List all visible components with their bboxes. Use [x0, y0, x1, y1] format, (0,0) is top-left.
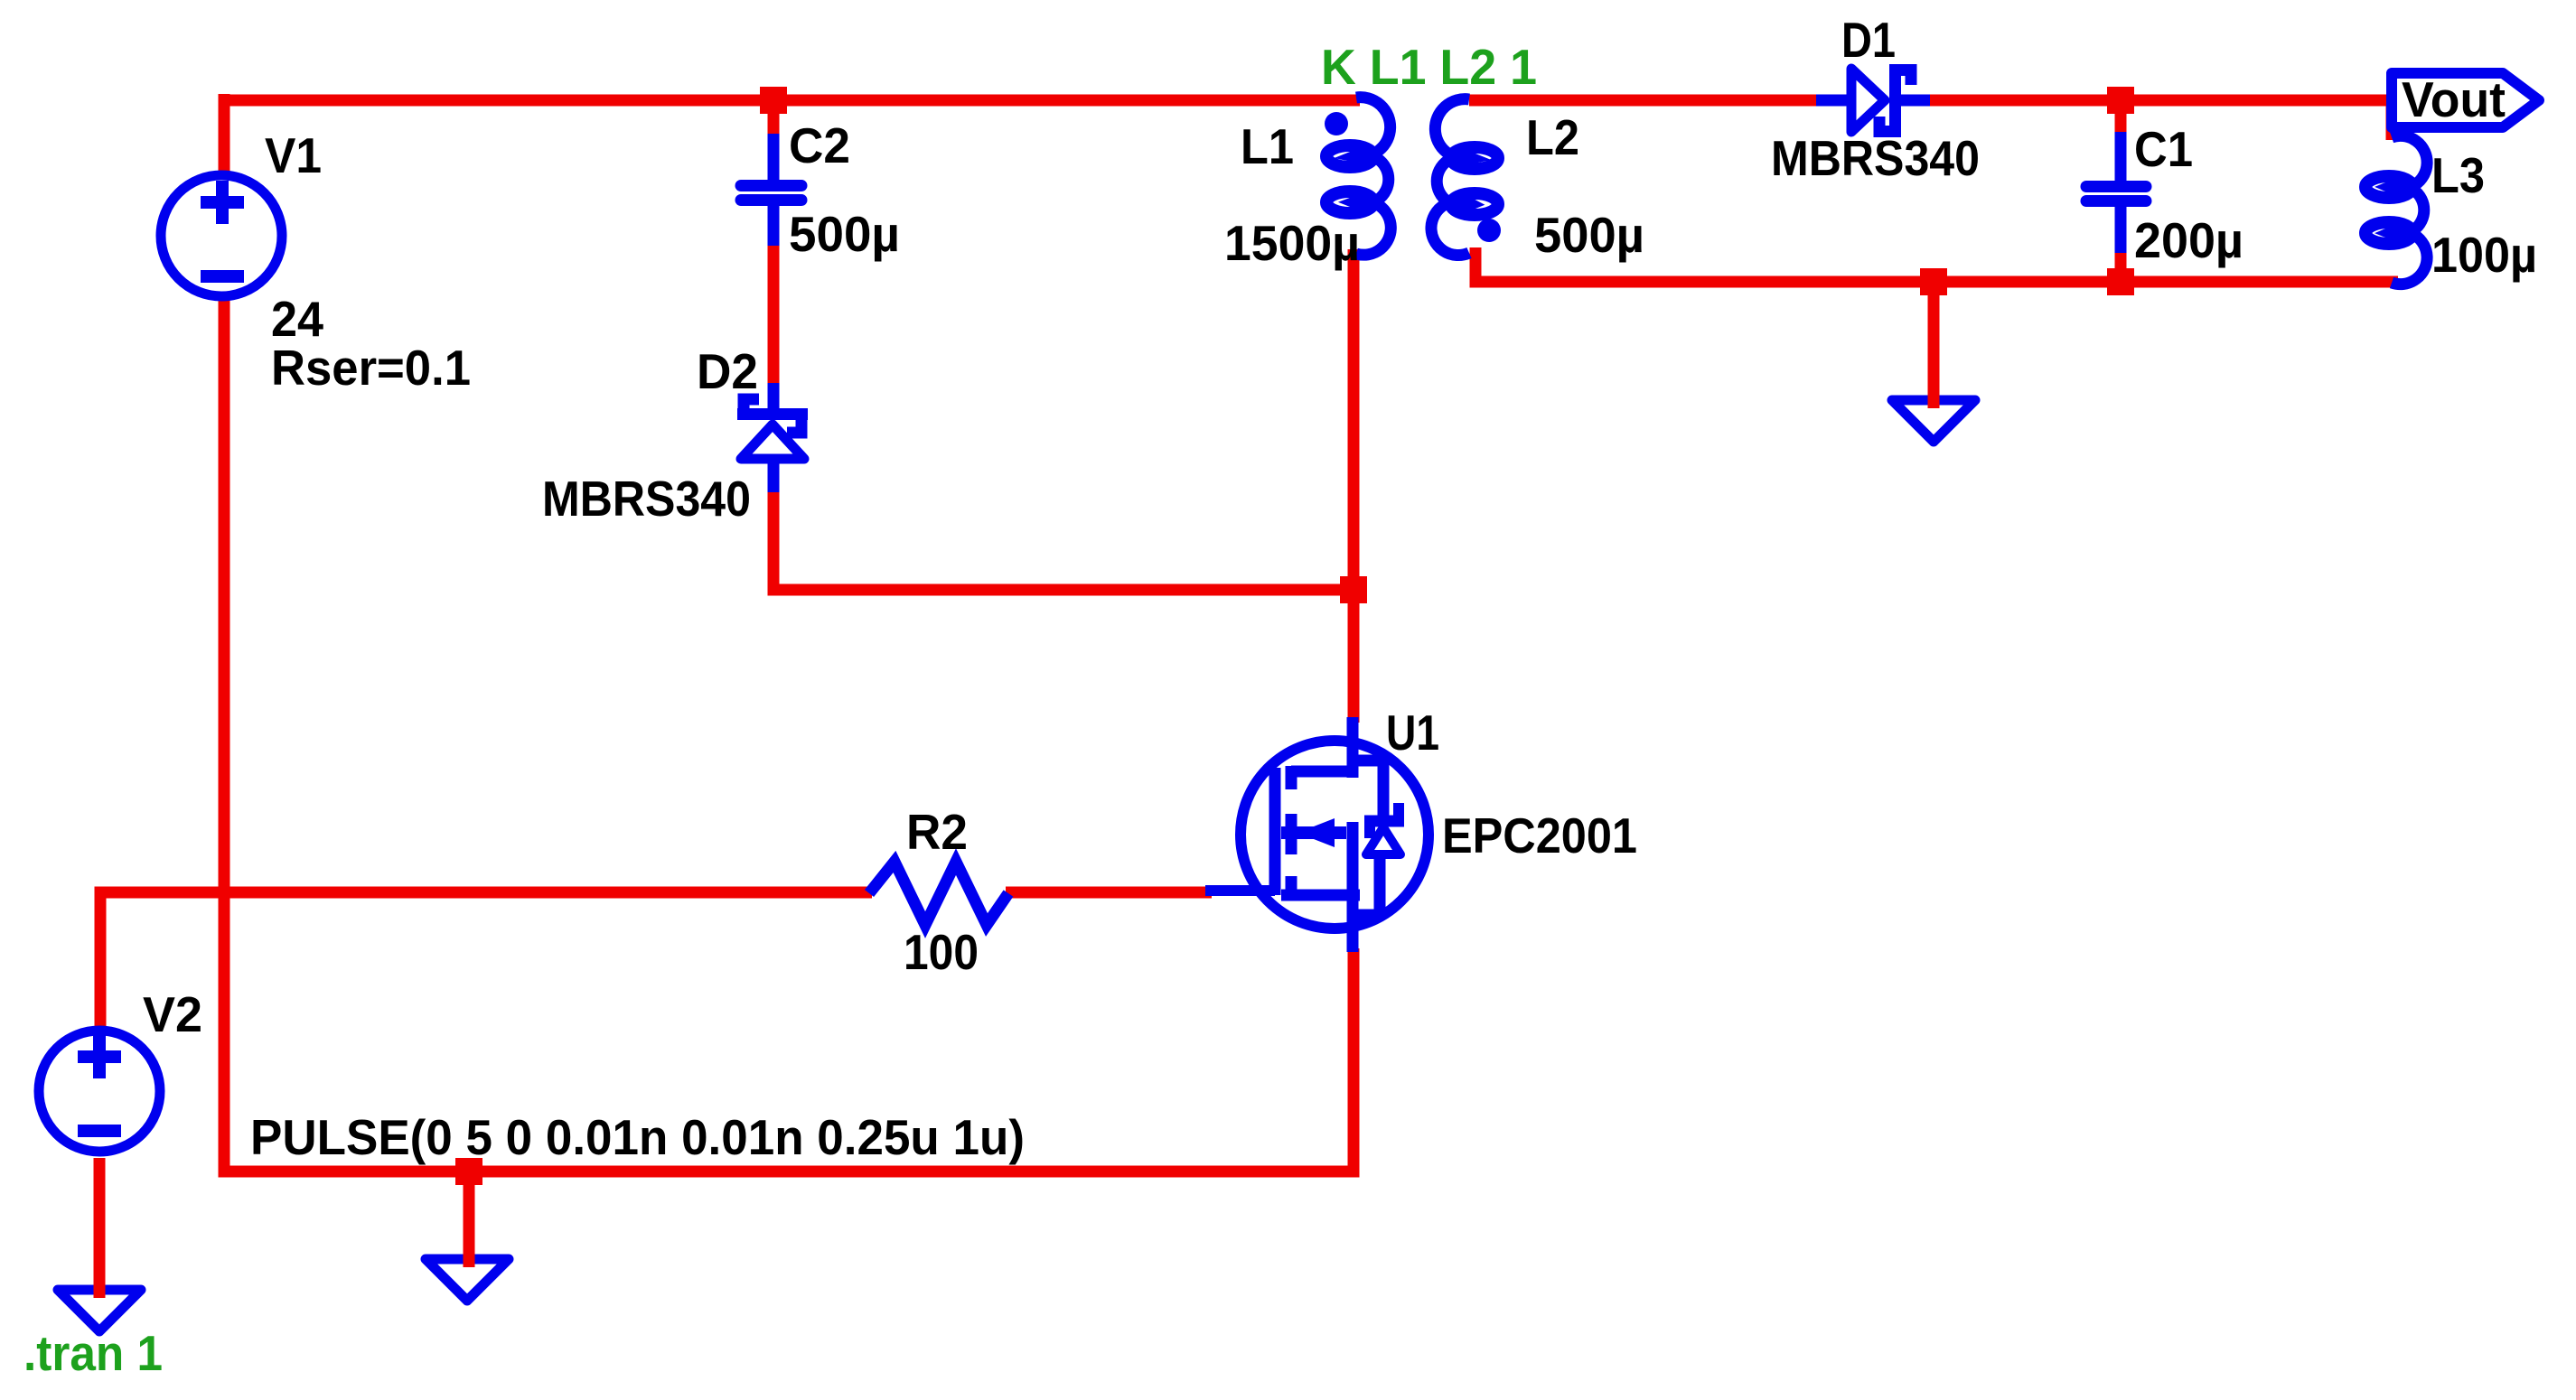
mosfet U1 EPC2001 — [1205, 717, 1429, 952]
svg-text:500µ: 500µ — [1534, 207, 1644, 263]
wire R2 to gate — [1006, 887, 1212, 899]
capacitor C2 — [741, 134, 801, 246]
svg-text:EPC2001: EPC2001 — [1442, 807, 1637, 863]
svg-text:C2: C2 — [789, 117, 850, 173]
voltage source V1 — [161, 175, 282, 296]
Vout port flag — [2392, 71, 2539, 127]
svg-text:200µ: 200µ — [2134, 212, 2243, 268]
node ground2 junction — [455, 1158, 482, 1185]
svg-text:100: 100 — [904, 924, 979, 980]
wire V2 top stub — [95, 887, 107, 1031]
wire bottom rail — [219, 1166, 1360, 1178]
ground output side — [1892, 400, 1975, 442]
svg-text:.tran 1: .tran 1 — [23, 1325, 163, 1381]
svg-text:U1: U1 — [1386, 705, 1439, 761]
wire drain vertical upper — [1348, 249, 1360, 723]
resistor R2 — [869, 862, 1008, 925]
svg-text:V1: V1 — [265, 127, 322, 183]
ground bottom center — [426, 1259, 509, 1301]
inductor L3 output — [2365, 135, 2427, 284]
svg-text:D2: D2 — [697, 343, 758, 399]
svg-text:PULSE(0 5 0 0.01n 0.01n 0.25u: PULSE(0 5 0 0.01n 0.01n 0.25u 1u) — [250, 1109, 1025, 1165]
wire source vertical lower — [1348, 948, 1360, 1178]
ground under V2 — [58, 1290, 141, 1331]
node C1 bottom junction — [2107, 268, 2134, 295]
svg-text:L2: L2 — [1526, 109, 1579, 165]
wire ground1 stem — [1928, 282, 1940, 402]
svg-text:MBRS340: MBRS340 — [542, 471, 751, 527]
svg-text:MBRS340: MBRS340 — [1771, 130, 1980, 186]
wire D1 to Vout — [1925, 95, 2392, 107]
svg-text:D1: D1 — [1841, 12, 1896, 68]
node C2 top junction — [760, 87, 787, 114]
node C1 top junction — [2107, 87, 2134, 114]
svg-text:K L1 L2 1: K L1 L2 1 — [1321, 39, 1537, 95]
diode D1 schottky — [1816, 64, 1930, 137]
wire C2 branch top — [768, 94, 780, 137]
svg-text:500µ: 500µ — [789, 206, 900, 262]
svg-text:Vout: Vout — [2402, 71, 2506, 127]
svg-text:V2: V2 — [143, 986, 202, 1042]
inductor L1 primary winding — [1326, 98, 1391, 256]
wire L2 bottom stem — [1470, 247, 1482, 276]
wire D2 bottom — [768, 486, 780, 596]
L1 phase dot — [1325, 112, 1348, 135]
svg-text:24: 24 — [271, 291, 323, 347]
wire ground2 stem — [464, 1171, 475, 1263]
svg-text:100µ: 100µ — [2431, 227, 2537, 283]
svg-text:Rser=0.1: Rser=0.1 — [271, 340, 471, 396]
wire V2 bottom stub — [94, 1158, 106, 1293]
capacitor C1 — [2086, 132, 2146, 253]
inductor L2 secondary winding — [1431, 99, 1498, 256]
svg-text:C1: C1 — [2134, 121, 2193, 177]
L2 phase dot — [1477, 219, 1501, 242]
wires layer — [97, 94, 2398, 1293]
wire D2 horizontal — [768, 584, 1360, 596]
svg-text:L1: L1 — [1241, 118, 1294, 174]
svg-text:1500µ: 1500µ — [1224, 215, 1360, 271]
diode D2 schottky — [737, 383, 808, 492]
wire bottom right rail — [1470, 276, 2399, 288]
wire C1 bottom stub — [2115, 249, 2127, 287]
wire V1 vertical — [219, 94, 230, 1171]
node ground1 junction — [1920, 268, 1947, 295]
node drain junction — [1340, 576, 1367, 603]
voltage source V2 — [39, 1031, 160, 1152]
junction nodes — [455, 87, 2134, 1185]
svg-text:R2: R2 — [906, 804, 968, 860]
wire gate rail left — [97, 887, 872, 899]
wire C1 top stub — [2115, 94, 2127, 135]
svg-text:L3: L3 — [2431, 147, 2485, 203]
wire top rail V1 to L1 — [224, 95, 1360, 107]
wire Vout stub — [2386, 100, 2398, 140]
wire C2 to D2 — [768, 242, 780, 388]
wire L2 top to D1 — [1469, 95, 1822, 107]
